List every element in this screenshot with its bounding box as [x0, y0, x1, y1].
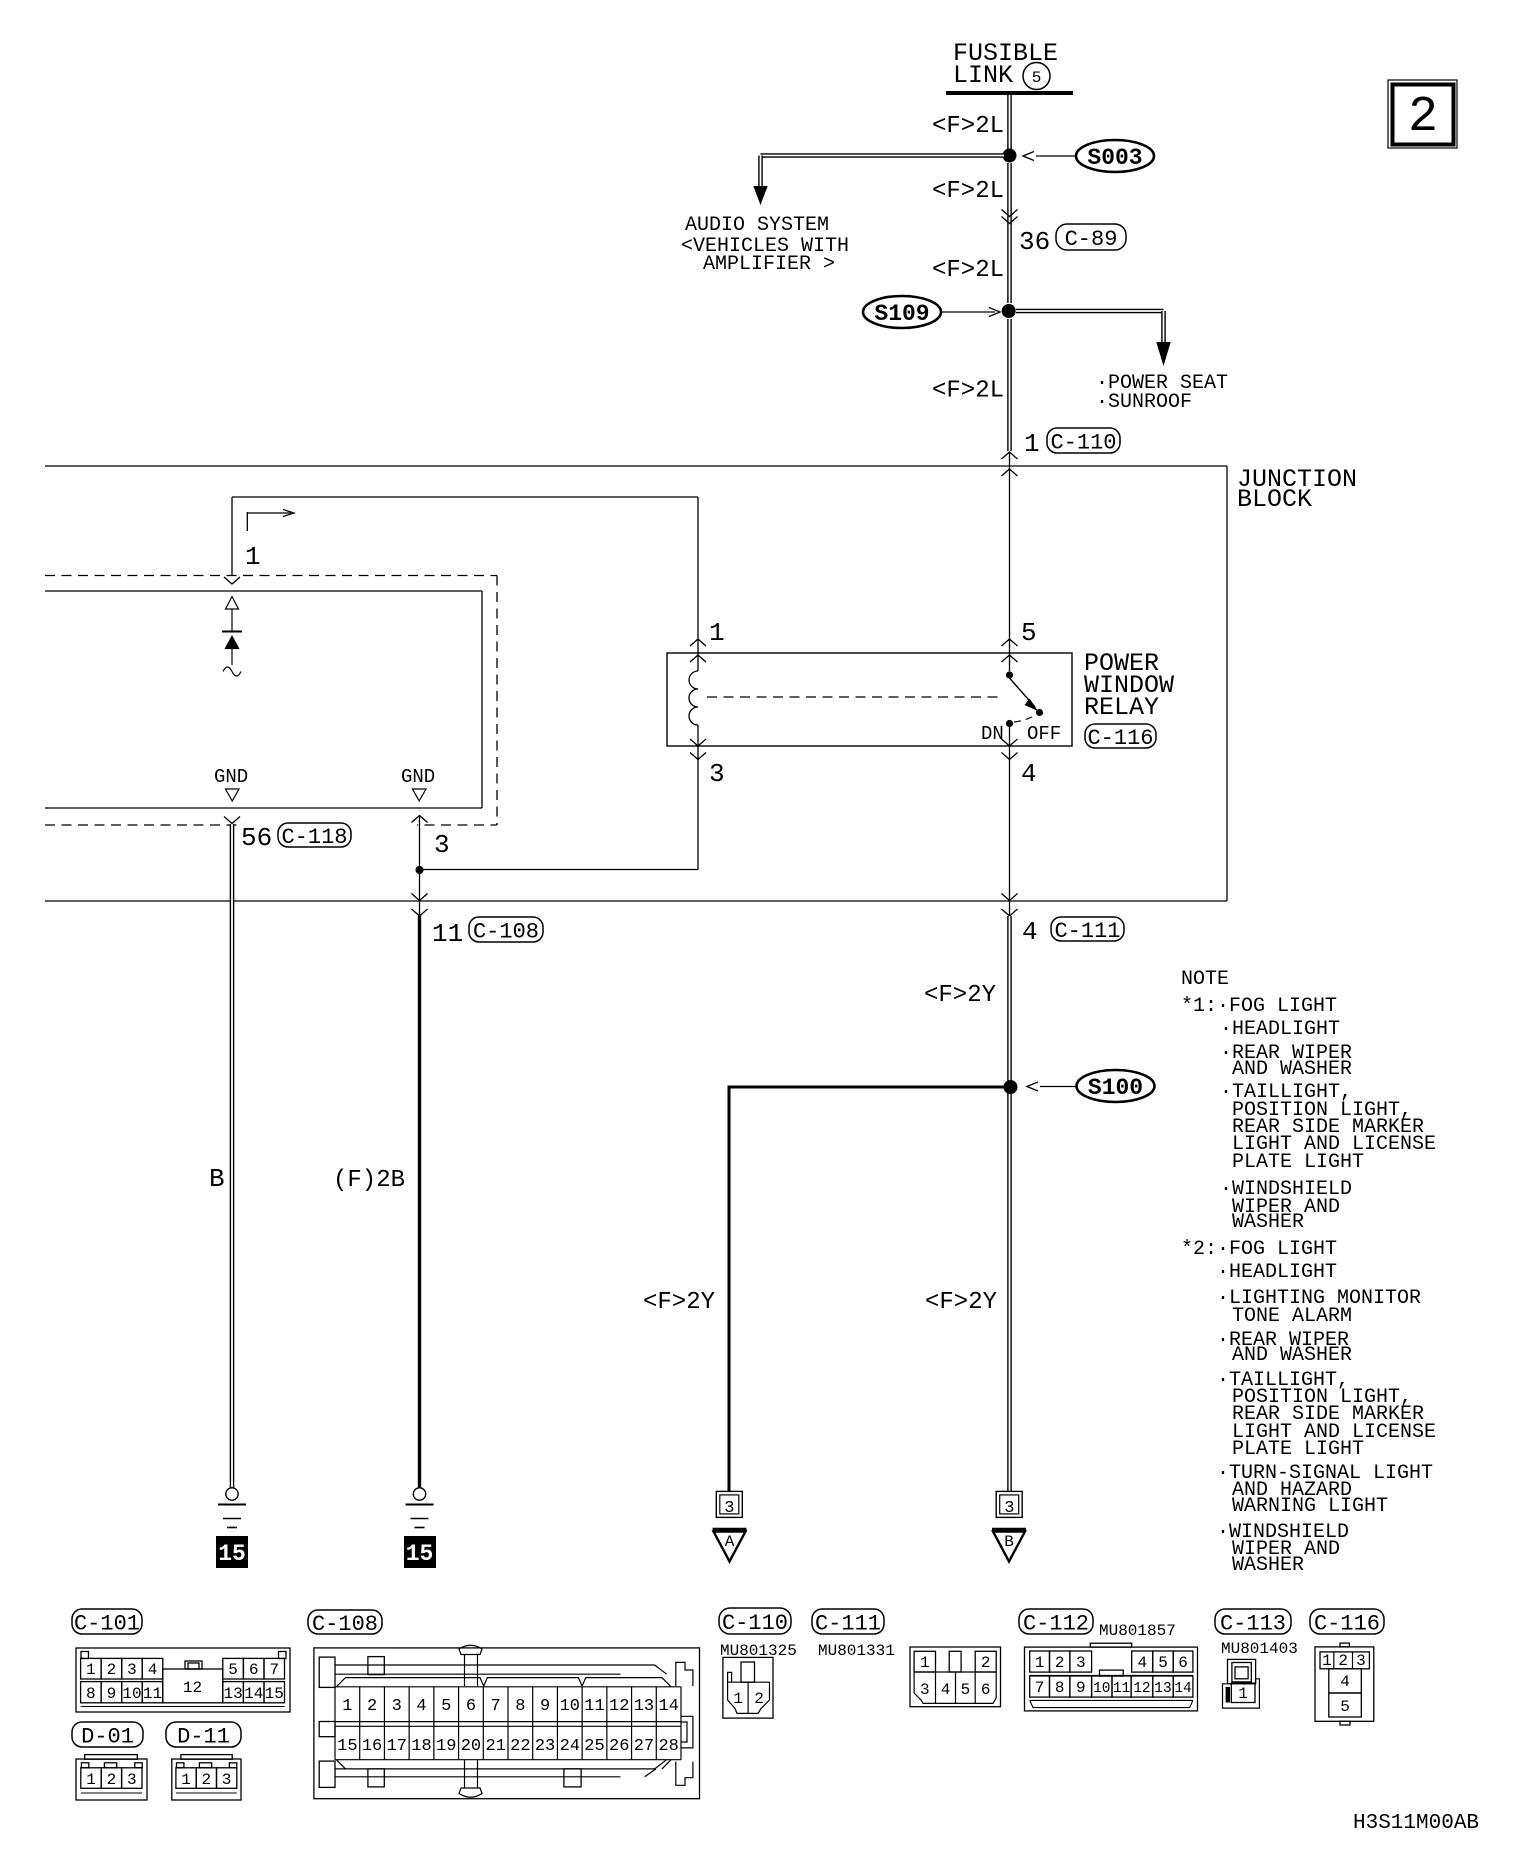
svg-text:13: 13 — [223, 1685, 242, 1703]
svg-text:S003: S003 — [1087, 145, 1142, 171]
chevrons exit C-111 pin 4 — [1002, 894, 1018, 901]
svg-text:1: 1 — [245, 542, 261, 572]
wire (F)2B thick — [418, 916, 421, 1488]
connector D-11 pin numbers — [181, 1771, 231, 1789]
svg-text:5: 5 — [961, 1681, 971, 1699]
svg-text:4: 4 — [1137, 1654, 1147, 1672]
svg-text:5: 5 — [1021, 618, 1037, 648]
svg-text:6: 6 — [249, 1661, 259, 1679]
wire branch (F)2Y thick horizontal — [729, 1086, 1006, 1089]
svg-text:WARNING LIGHT: WARNING LIGHT — [1232, 1495, 1388, 1518]
svg-text:11: 11 — [1113, 1681, 1130, 1697]
connector C-111 body — [910, 1647, 1001, 1707]
wire junction block pin1 vertical to relay branch — [1009, 453, 1011, 653]
svg-text:<F>2Y: <F>2Y — [924, 982, 996, 1009]
svg-text:·HEADLIGHT: ·HEADLIGHT — [1220, 1018, 1340, 1041]
svg-text:OFF: OFF — [1027, 723, 1061, 745]
arrow exit pin 3 of switch module — [419, 816, 421, 870]
svg-text:3: 3 — [222, 1771, 232, 1789]
svg-text:1: 1 — [1322, 1652, 1332, 1670]
svg-text:S100: S100 — [1088, 1075, 1143, 1101]
connector D-11 body — [181, 1755, 232, 1760]
svg-text:WASHER: WASHER — [1232, 1554, 1304, 1577]
svg-text:4: 4 — [1021, 759, 1037, 789]
svg-text:16: 16 — [362, 1737, 382, 1756]
svg-text:25: 25 — [584, 1737, 604, 1756]
svg-text:24: 24 — [560, 1737, 580, 1756]
svg-text:2: 2 — [981, 1654, 991, 1672]
svg-text:AMPLIFIER >: AMPLIFIER > — [703, 253, 835, 276]
offpage triangle A — [713, 1528, 747, 1531]
wire fusible link to splice S003 (F)2L — [1007, 95, 1012, 150]
arrowhead to audio system — [753, 186, 767, 205]
svg-text:<F>2L: <F>2L — [932, 378, 1004, 405]
offpage triangle B — [992, 1528, 1026, 1531]
svg-text:<F>2L: <F>2L — [932, 113, 1004, 140]
page number box 2 — [1388, 80, 1457, 148]
connector label C-118 — [278, 823, 351, 847]
connector label C-111 inline — [1051, 917, 1124, 941]
svg-text:2: 2 — [201, 1771, 211, 1789]
svg-text:1: 1 — [342, 1697, 352, 1716]
svg-text:15: 15 — [218, 1541, 246, 1567]
connector C-108 top retainer — [459, 1645, 482, 1654]
svg-text:DN: DN — [981, 723, 1004, 745]
ground code box 15 left — [216, 1536, 248, 1568]
internal wire node 1 vertical left — [231, 497, 233, 576]
wire branch to audio system — [761, 153, 1005, 158]
svg-text:·HEADLIGHT: ·HEADLIGHT — [1217, 1261, 1337, 1284]
chevrons at C-89 crossing — [1002, 210, 1018, 217]
wire main (F)2Y double line — [1007, 916, 1012, 1491]
relay switch common contact — [1009, 653, 1011, 671]
splice S109 oval — [863, 296, 941, 328]
connector C-101 body — [76, 1648, 290, 1712]
svg-text:3: 3 — [1356, 1652, 1366, 1670]
svg-text:D-11: D-11 — [177, 1724, 230, 1749]
svg-text:C-108: C-108 — [473, 919, 539, 944]
svg-text:9: 9 — [1076, 1679, 1086, 1697]
connector label D-01 — [72, 1722, 143, 1747]
svg-text:3: 3 — [392, 1697, 402, 1716]
svg-text:10: 10 — [1093, 1681, 1110, 1697]
connector D-01 pin numbers — [86, 1771, 136, 1789]
svg-text:C-110: C-110 — [722, 1611, 788, 1636]
svg-text:5: 5 — [228, 1661, 238, 1679]
svg-text:56: 56 — [241, 823, 272, 853]
connector C-108 lid — [336, 1678, 671, 1687]
svg-text:11: 11 — [432, 919, 463, 949]
svg-text:C-112: C-112 — [1023, 1611, 1089, 1636]
dashed switch module boundary — [45, 575, 497, 577]
svg-text:15: 15 — [265, 1685, 284, 1703]
arrow S100 to junction — [1040, 1086, 1076, 1088]
fusible link bus bar — [946, 91, 1073, 95]
connector C-116 body — [1340, 1643, 1349, 1647]
wire relay pin3 vertical — [697, 746, 699, 870]
chevrons relay pin 3 — [690, 739, 706, 746]
ground symbol B — [226, 1488, 238, 1500]
svg-text:27: 27 — [634, 1737, 654, 1756]
connector C-101 pin 12 cavity — [163, 1669, 223, 1703]
splice S003 junction dot — [1003, 149, 1017, 163]
connector C-108 bottom tabs — [368, 1769, 384, 1787]
wire branch to power seat/sunroof — [1016, 309, 1164, 314]
svg-text:AUDIO SYSTEM: AUDIO SYSTEM — [685, 214, 829, 237]
svg-text:5: 5 — [1340, 1698, 1350, 1716]
svg-text:23: 23 — [535, 1737, 555, 1756]
svg-text:4: 4 — [941, 1681, 951, 1699]
svg-text:AND WASHER: AND WASHER — [1232, 1058, 1352, 1081]
svg-text:11: 11 — [143, 1685, 162, 1703]
svg-text:20: 20 — [461, 1737, 481, 1756]
svg-text:MU801331: MU801331 — [818, 1642, 895, 1660]
svg-text:<F>2L: <F>2L — [932, 178, 1004, 205]
wire relay pin1 vertical — [697, 497, 699, 653]
svg-text:C-110: C-110 — [1050, 430, 1116, 455]
svg-text:GND: GND — [401, 766, 435, 788]
svg-text:BLOCK: BLOCK — [1237, 485, 1312, 514]
wire pin 11 exit vertical — [419, 870, 421, 901]
relay coil-contact dashed link — [707, 696, 1003, 698]
svg-text:1: 1 — [86, 1661, 96, 1679]
svg-text:22: 22 — [510, 1737, 530, 1756]
svg-text:13: 13 — [1154, 1681, 1171, 1697]
svg-text:4: 4 — [148, 1661, 158, 1679]
connector label C-112 — [1019, 1609, 1093, 1634]
svg-text:12: 12 — [1133, 1681, 1150, 1697]
connector C-108 right tab — [681, 1716, 693, 1748]
svg-text:1: 1 — [86, 1771, 96, 1789]
arrow S003 to junction — [1036, 155, 1075, 157]
svg-text:S109: S109 — [874, 301, 929, 327]
svg-text:9: 9 — [540, 1697, 550, 1716]
chevrons exit C-108 pin 11 — [412, 894, 428, 901]
wire relay pin4 vertical — [1009, 746, 1011, 901]
svg-text:H3S11M00AB: H3S11M00AB — [1353, 1812, 1479, 1835]
svg-text:4: 4 — [1340, 1673, 1350, 1691]
connector C-112 pin numbers — [1035, 1654, 1192, 1697]
svg-text:6: 6 — [981, 1681, 991, 1699]
svg-text:B: B — [1004, 1533, 1014, 1551]
svg-text:5: 5 — [1158, 1654, 1168, 1672]
svg-text:3: 3 — [1004, 1499, 1014, 1518]
svg-text:3: 3 — [127, 1771, 137, 1789]
svg-text:PLATE LIGHT: PLATE LIGHT — [1232, 1151, 1364, 1174]
connector label D-11 — [166, 1722, 241, 1747]
svg-text:28: 28 — [658, 1737, 678, 1756]
svg-text:A: A — [725, 1533, 735, 1551]
svg-text:15: 15 — [406, 1541, 434, 1567]
svg-text:18: 18 — [411, 1737, 431, 1756]
svg-text:MU801403: MU801403 — [1221, 1640, 1298, 1658]
svg-text:AND WASHER: AND WASHER — [1232, 1344, 1352, 1367]
connector label C-116 bottom — [1310, 1609, 1384, 1634]
svg-text:D-01: D-01 — [81, 1724, 134, 1749]
svg-text:8: 8 — [86, 1685, 96, 1703]
splice S109 junction dot — [1002, 304, 1016, 318]
svg-text:11: 11 — [584, 1697, 604, 1716]
svg-text:C-116: C-116 — [1314, 1611, 1380, 1636]
relay coil — [697, 653, 699, 671]
svg-text:12: 12 — [183, 1679, 202, 1697]
svg-text:3: 3 — [724, 1499, 734, 1518]
svg-text:2: 2 — [1408, 89, 1438, 146]
svg-text:1: 1 — [1035, 1654, 1045, 1672]
svg-text:14: 14 — [1174, 1681, 1191, 1697]
svg-text:*1:·FOG LIGHT: *1:·FOG LIGHT — [1181, 995, 1337, 1018]
connector label C-108 inline — [469, 917, 543, 942]
svg-text:10: 10 — [122, 1685, 141, 1703]
svg-text:7: 7 — [491, 1697, 501, 1716]
power window relay box — [667, 653, 1072, 746]
connector label C-111 bottom — [812, 1609, 884, 1634]
svg-text:6: 6 — [466, 1697, 476, 1716]
connector notch at dashed boundary top — [224, 577, 240, 584]
svg-text:21: 21 — [485, 1737, 505, 1756]
svg-text:36: 36 — [1019, 227, 1050, 257]
wire branch (F)2Y thick vertical — [728, 1086, 731, 1492]
chevrons relay pin 1 — [690, 639, 706, 646]
svg-text:C-108: C-108 — [312, 1612, 378, 1637]
svg-text:1: 1 — [709, 618, 725, 648]
svg-text:3: 3 — [1076, 1654, 1086, 1672]
svg-text:B: B — [209, 1164, 225, 1194]
svg-text:4: 4 — [1022, 917, 1038, 947]
svg-text:2: 2 — [1055, 1654, 1065, 1672]
offpage box 3 A — [716, 1491, 742, 1517]
svg-text:LINK: LINK — [953, 61, 1013, 90]
chevrons relay pin 4 — [1002, 739, 1018, 746]
wire B double line — [230, 824, 235, 1488]
relay switch DN contact — [1006, 720, 1013, 727]
svg-text:C-89: C-89 — [1065, 227, 1118, 252]
connector C-108 pin numbers — [337, 1697, 679, 1756]
svg-text:1: 1 — [1024, 429, 1040, 459]
svg-text:<F>2Y: <F>2Y — [925, 1289, 997, 1316]
connector C-108 bottom retainer — [459, 1788, 482, 1797]
svg-text:C-118: C-118 — [281, 825, 347, 850]
svg-text:19: 19 — [436, 1737, 456, 1756]
junction block outline — [45, 465, 1227, 467]
diode arrow symbol inside switch module — [226, 597, 239, 610]
wire S109 to junction block (F)2L — [1007, 319, 1012, 451]
svg-text:14: 14 — [658, 1697, 678, 1716]
connector C-113 body — [1228, 1659, 1256, 1683]
svg-text:3: 3 — [920, 1681, 930, 1699]
svg-text:6: 6 — [1178, 1654, 1188, 1672]
connector label C-89 — [1056, 224, 1126, 250]
splice S100 junction dot — [1004, 1080, 1018, 1094]
connector label C-110 bottom — [719, 1608, 791, 1634]
connector C-108 body — [314, 1648, 700, 1799]
squiggle wire break symbol — [223, 667, 241, 676]
internal wire node 1 horizontal — [232, 496, 698, 498]
connector label C-110 inline — [1047, 428, 1120, 453]
ground triangle left — [226, 789, 240, 801]
svg-text:15: 15 — [337, 1737, 357, 1756]
svg-text:3: 3 — [434, 830, 450, 860]
svg-text:2: 2 — [367, 1697, 377, 1716]
svg-text:<F>2Y: <F>2Y — [643, 1289, 715, 1316]
svg-text:3: 3 — [709, 759, 725, 789]
svg-text:5: 5 — [1032, 69, 1042, 87]
wire S003 to connector C-89 (F)2L — [1007, 163, 1012, 303]
svg-text:2: 2 — [1338, 1652, 1348, 1670]
svg-text:WASHER: WASHER — [1232, 1211, 1304, 1234]
svg-text:14: 14 — [244, 1685, 263, 1703]
wire stub pin11 below block — [419, 901, 421, 918]
svg-text:*2:·FOG LIGHT: *2:·FOG LIGHT — [1181, 1238, 1337, 1261]
connector notch at 56 exit — [224, 817, 240, 824]
svg-text:26: 26 — [609, 1737, 629, 1756]
svg-text:GND: GND — [214, 766, 248, 788]
svg-text:<F>2L: <F>2L — [932, 257, 1004, 284]
connector C-112 body — [1090, 1643, 1131, 1647]
relay switch arm to OFF — [1010, 678, 1036, 707]
svg-text:RELAY: RELAY — [1084, 693, 1159, 722]
wire continuation arrow mark — [246, 512, 248, 531]
svg-text:13: 13 — [634, 1697, 654, 1716]
svg-text:7: 7 — [269, 1661, 279, 1679]
svg-text:C-116: C-116 — [1087, 726, 1153, 751]
connector C-108 bottom right bracket — [676, 1762, 693, 1786]
svg-text:9: 9 — [107, 1685, 117, 1703]
svg-text:10: 10 — [560, 1697, 580, 1716]
svg-text:TONE ALARM: TONE ALARM — [1232, 1305, 1352, 1328]
connector C-108 bottom rails — [335, 1768, 655, 1770]
svg-text:·SUNROOF: ·SUNROOF — [1096, 391, 1192, 414]
splice S100 oval — [1077, 1070, 1155, 1102]
connector C-116 pin numbers — [1322, 1652, 1366, 1716]
connector label C-108 bottom — [308, 1610, 382, 1634]
connector label C-116 relay — [1085, 724, 1156, 748]
connector C-108 pin grid — [334, 1687, 336, 1760]
connector C-108 top right bracket — [676, 1662, 693, 1686]
svg-text:1: 1 — [1238, 1685, 1248, 1703]
connector C-111 pin numbers — [920, 1654, 991, 1699]
svg-text:C-101: C-101 — [74, 1611, 140, 1636]
chevrons entering junction block — [1002, 452, 1018, 459]
relay switch dashed alternate position — [1014, 716, 1034, 722]
internal wire relay pin3 horizontal — [420, 869, 699, 871]
connector C-108 top tab — [368, 1657, 384, 1675]
ground symbol (F)2B — [413, 1488, 425, 1500]
svg-text:8: 8 — [1055, 1679, 1065, 1697]
svg-text:C-111: C-111 — [1054, 919, 1120, 944]
svg-text:C-113: C-113 — [1220, 1611, 1286, 1636]
svg-text:PLATE LIGHT: PLATE LIGHT — [1232, 1438, 1364, 1461]
svg-text:8: 8 — [515, 1697, 525, 1716]
connector C-110 body — [723, 1657, 773, 1718]
note text block — [1181, 968, 1436, 1577]
connector D-01 body — [85, 1755, 138, 1760]
svg-text:12: 12 — [609, 1697, 629, 1716]
connector C-108 left blocks — [319, 1657, 335, 1687]
svg-text:2: 2 — [107, 1771, 117, 1789]
svg-text:7: 7 — [1035, 1679, 1045, 1697]
svg-text:C-111: C-111 — [815, 1611, 881, 1636]
connector label C-101 — [72, 1609, 142, 1634]
ground code box 15 right — [404, 1536, 436, 1568]
svg-text:1: 1 — [181, 1771, 191, 1789]
svg-text:MU801857: MU801857 — [1099, 1622, 1176, 1640]
junction dot internal — [416, 866, 424, 874]
wire stub pin4 below block — [1009, 901, 1011, 918]
connector C-101 pin numbers — [86, 1661, 284, 1703]
chevrons relay pin 5 — [1002, 639, 1018, 646]
svg-text:3: 3 — [127, 1661, 137, 1679]
ground triangle right — [413, 789, 427, 801]
offpage box 3 B — [996, 1491, 1022, 1517]
arrowhead to power seat — [1156, 342, 1170, 366]
svg-text:1: 1 — [733, 1690, 743, 1708]
connector label C-113 — [1215, 1609, 1291, 1634]
connector C-108 top rails — [335, 1664, 655, 1666]
arrow S109 to junction — [941, 311, 995, 313]
svg-text:2: 2 — [107, 1661, 117, 1679]
svg-text:NOTE: NOTE — [1181, 968, 1229, 991]
svg-text:2: 2 — [754, 1690, 764, 1708]
svg-text:4: 4 — [416, 1697, 426, 1716]
svg-text:17: 17 — [387, 1737, 407, 1756]
splice S003 oval — [1076, 140, 1154, 172]
svg-text:5: 5 — [441, 1697, 451, 1716]
svg-text:1: 1 — [920, 1654, 930, 1672]
svg-text:(F)2B: (F)2B — [333, 1167, 405, 1194]
solid switch module box — [45, 590, 482, 592]
